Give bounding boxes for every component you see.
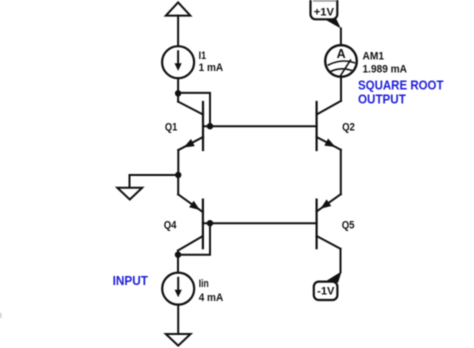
label I1 value (199, 50, 224, 74)
wire Q1 collector-base tie (178, 93, 210, 126)
wire (177, 305, 179, 334)
node emitter junction (175, 172, 181, 178)
label Q2 (342, 122, 355, 134)
svg-text:SQUARE ROOT: SQUARE ROOT (358, 77, 444, 92)
wire Q4 collector-base tie (178, 223, 210, 255)
svg-text:Q4: Q4 (164, 219, 178, 231)
label Q5 (342, 219, 355, 231)
current source Iin (162, 273, 194, 305)
label Iin value (199, 278, 224, 304)
svg-text:1.989 mA: 1.989 mA (363, 63, 408, 75)
ground (117, 188, 142, 200)
svg-text:A: A (337, 47, 346, 61)
wire (340, 29, 342, 46)
label Q1 (165, 122, 178, 134)
svg-text:AM1: AM1 (363, 50, 385, 62)
svg-text:Q2: Q2 (342, 122, 355, 134)
svg-text:Q5: Q5 (342, 219, 355, 231)
edge artifact (0, 313, 2, 318)
svg-text:INPUT: INPUT (113, 273, 148, 288)
node A junction (175, 90, 181, 96)
transistor Q5 (317, 194, 341, 249)
svg-text:1 mA: 1 mA (199, 62, 224, 74)
voltage label box -1V (314, 282, 338, 300)
wire base rail Q4-Q5 (203, 222, 317, 224)
label Q4 (164, 219, 178, 231)
transistor Q1 (178, 93, 203, 151)
ammeter AM1 (325, 45, 357, 77)
transistor Q2 (317, 101, 341, 151)
svg-text:OUTPUT: OUTPUT (358, 91, 406, 106)
svg-text:-1V: -1V (317, 285, 335, 297)
wire (340, 150, 342, 194)
wire base rail Q1-Q2 (203, 125, 317, 127)
svg-text:Q1: Q1 (165, 122, 178, 134)
label INPUT (113, 273, 148, 288)
svg-text:Iin: Iin (199, 278, 209, 290)
node Q4 base junction (207, 220, 213, 226)
flag pole -1V (325, 272, 341, 282)
transistor Q4 (178, 175, 203, 255)
wire (177, 150, 179, 175)
wire (177, 255, 179, 273)
voltage label box +1V (311, 0, 338, 19)
node Q1 base junction (207, 123, 213, 129)
wire (177, 16, 179, 47)
wire (340, 77, 342, 101)
wire (340, 249, 342, 272)
svg-text:4 mA: 4 mA (199, 292, 224, 304)
svg-text:I1: I1 (199, 50, 207, 62)
ground (166, 334, 191, 346)
node input junction (175, 252, 181, 258)
label SQUARE ROOT OUTPUT (358, 77, 444, 106)
power supply flag V+ (166, 2, 190, 15)
flag pole +1V (324, 19, 341, 29)
current source I1 (162, 46, 194, 78)
svg-text:+1V: +1V (314, 6, 335, 18)
wire (177, 78, 179, 93)
wire to ground (130, 175, 179, 188)
label AM1 value (363, 50, 408, 75)
